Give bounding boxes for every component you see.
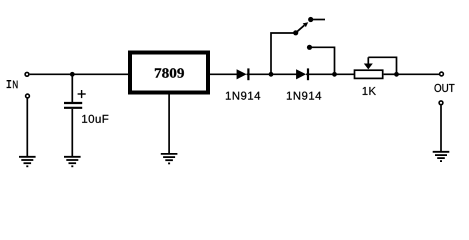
node D (junction at pot output)	[394, 72, 399, 77]
label 1K	[363, 87, 376, 95]
wire node A down to capacitor	[71, 74, 73, 102]
diode D2 1N914	[296, 68, 308, 80]
wire IN return to ground	[26, 99, 28, 157]
wire regulator ground pin	[168, 95, 170, 154]
terminal OUT (bottom, return)	[439, 101, 443, 105]
label 1N914 (D1)	[226, 92, 260, 100]
potentiometer R1 wiper arrow	[364, 57, 373, 69]
label 1N914 (D2)	[287, 92, 321, 100]
diode D1 1N914	[237, 68, 249, 80]
ground (IN return)	[19, 157, 36, 167]
wire potentiometer to node D	[384, 73, 397, 75]
wire node B to diode D2	[271, 73, 297, 75]
switch S1 lower contact	[307, 45, 312, 50]
wire stub from upper contact	[311, 19, 325, 21]
wire regulator output to diode D1	[210, 73, 237, 75]
node B (junction after D1)	[269, 72, 274, 77]
node A (capacitor tap junction)	[70, 72, 75, 77]
wire wiper to node D	[368, 57, 396, 74]
switch S1 lever (arrow)	[296, 22, 309, 33]
ground (capacitor C1)	[64, 157, 81, 167]
switch S1 pole	[293, 30, 298, 35]
wire capacitor to ground	[71, 109, 73, 157]
wire node D to OUT terminal	[397, 73, 440, 75]
wire node B up to switch pole	[271, 33, 296, 74]
terminal OUT (top, output)	[440, 72, 444, 76]
potentiometer R1 body	[355, 70, 383, 78]
wire lower contact to node C	[310, 47, 335, 74]
label IN	[7, 81, 18, 89]
ground (OUT return)	[433, 152, 450, 161]
capacitor C1 plates	[64, 103, 82, 108]
switch S1 upper contact	[308, 17, 313, 22]
wire diode D1 to node B	[247, 73, 271, 75]
node C (junction before potentiometer)	[332, 72, 337, 77]
wire OUT return to ground	[440, 105, 442, 152]
wire node C to potentiometer R1	[335, 73, 355, 75]
wire IN to regulator input	[30, 73, 128, 75]
capacitor C1 plus sign	[78, 90, 86, 98]
ground (regulator U1)	[161, 154, 178, 164]
terminal IN (bottom, return)	[26, 94, 30, 98]
label 7809	[155, 68, 184, 77]
value label 10uF	[82, 115, 108, 123]
wire diode D2 to node C	[306, 73, 334, 75]
label OUT	[435, 84, 455, 92]
terminal IN (top, signal input)	[25, 72, 29, 76]
regulator U1 7809 body	[130, 53, 208, 93]
